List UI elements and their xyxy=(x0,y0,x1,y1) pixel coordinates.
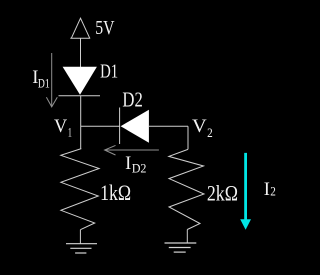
resistor R2 2k zigzag xyxy=(169,149,204,229)
svg-text:2: 2 xyxy=(207,125,213,140)
svg-text:I: I xyxy=(125,154,131,174)
wire D1 cathode to node V1 and down to R1 xyxy=(80,96,82,149)
current arrow I_D2 xyxy=(105,145,159,155)
wire node V1 to D2 cathode xyxy=(81,125,120,127)
diode D1 xyxy=(59,67,101,96)
current arrow I2 (cyan) xyxy=(240,153,251,230)
svg-text:D1: D1 xyxy=(100,62,118,83)
svg-text:D2: D2 xyxy=(132,161,147,175)
power supply 5V symbol xyxy=(70,18,90,38)
wire R1 to ground xyxy=(79,230,81,244)
wire 5V to D1 anode xyxy=(80,38,82,67)
wire V2 corner down to R2 xyxy=(187,126,189,149)
ground left xyxy=(66,244,97,253)
wire D2 anode to node V2 xyxy=(149,125,188,127)
svg-text:5V: 5V xyxy=(95,18,114,39)
ground right xyxy=(165,243,197,252)
resistor R1 1k zigzag xyxy=(61,149,99,230)
svg-text:V: V xyxy=(54,117,68,137)
svg-text:D1: D1 xyxy=(38,76,50,90)
svg-text:2kΩ: 2kΩ xyxy=(207,180,238,205)
diode D2 xyxy=(120,108,149,145)
svg-text:1kΩ: 1kΩ xyxy=(100,180,131,205)
svg-text:D2: D2 xyxy=(122,87,142,111)
svg-text:1: 1 xyxy=(68,124,72,139)
svg-text:2: 2 xyxy=(270,184,276,199)
current arrow I_D1 xyxy=(46,53,57,107)
svg-text:I: I xyxy=(264,180,270,200)
svg-text:V: V xyxy=(192,117,207,137)
wire R2 to ground xyxy=(186,230,188,243)
